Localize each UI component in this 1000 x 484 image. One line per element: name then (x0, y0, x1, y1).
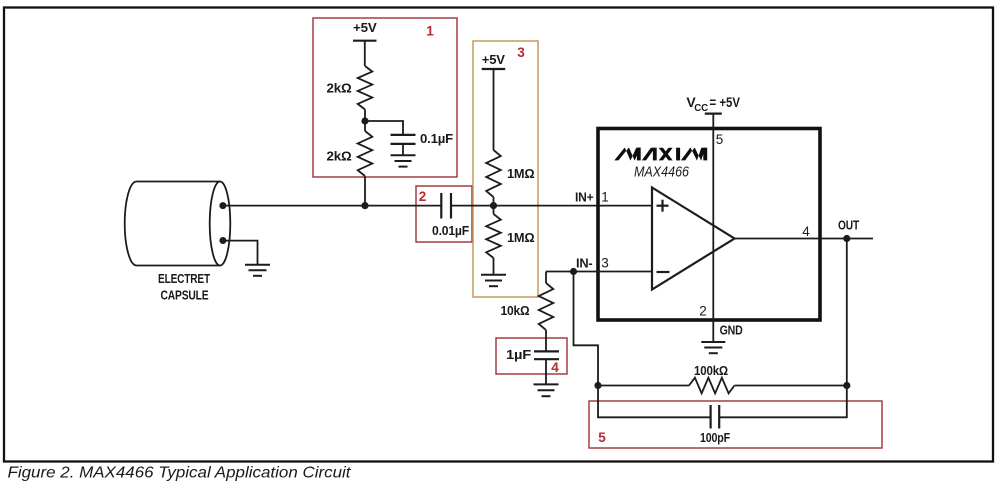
op-amp U1 triangle (652, 188, 735, 290)
node bias divider junction (361, 117, 368, 124)
svg-text:2: 2 (699, 304, 707, 319)
annotation box 1 (313, 18, 457, 177)
svg-text:5: 5 (598, 430, 606, 445)
annotation box 5 (589, 401, 882, 448)
annotation box 4 (496, 338, 567, 374)
node OUT junction (843, 235, 850, 242)
svg-text:4: 4 (802, 224, 810, 239)
svg-text:1MΩ: 1MΩ (507, 230, 535, 245)
svg-text:2kΩ: 2kΩ (327, 81, 352, 96)
wire +5V bar to R1 (364, 41, 366, 66)
wire 0.1uF to ground (402, 144, 404, 155)
svg-text:ELECTRET: ELECTRET (158, 271, 210, 286)
svg-text:3: 3 (601, 256, 609, 271)
IC U1 MAX4466 package (598, 129, 820, 321)
node feedback right junction (843, 382, 850, 389)
svg-text:Figure 2. MAX4466 Typical Appl: Figure 2. MAX4466 Typical Application Ci… (8, 465, 352, 482)
ground at 1uF (534, 384, 559, 396)
svg-text:4: 4 (551, 360, 559, 375)
svg-text:10kΩ: 10kΩ (501, 303, 530, 318)
wire Vcc pin 5 through IC to GND pin 2 (712, 114, 714, 342)
ground at 0.1uF (391, 155, 416, 166)
ground at IC GND pin (701, 342, 725, 353)
wire +5V bar to 1M upper (493, 69, 495, 150)
annotation box 3 (473, 41, 538, 297)
wire 100pF branch left (598, 386, 711, 418)
svg-text:OUT: OUT (838, 218, 859, 233)
wire 1M lower to ground (493, 258, 495, 275)
wire bias node to 0.1uF cap (365, 121, 403, 135)
wire 100pF branch right (719, 386, 847, 418)
capacitor 100pF (711, 405, 720, 429)
wire capsule output to coupling cap (223, 205, 441, 207)
svg-text:0.01µF: 0.01µF (432, 223, 469, 238)
svg-text:2: 2 (419, 189, 427, 204)
Vcc supply bar (705, 112, 722, 114)
svg-text:1: 1 (601, 190, 609, 205)
wire IN- input (546, 271, 652, 273)
node capsule output terminal (219, 202, 226, 209)
node feedback left junction (594, 382, 601, 389)
svg-text:IN-: IN- (576, 256, 593, 271)
resistor R 10k (539, 283, 554, 330)
+5V supply bar (input divider) (482, 68, 506, 70)
node bias to main wire junction (361, 202, 368, 209)
wire 1M upper to node (493, 197, 495, 214)
ground at input divider (481, 275, 506, 286)
svg-text:IN+: IN+ (575, 190, 594, 205)
+5V supply bar (bias divider) (353, 40, 377, 42)
svg-text:1MΩ: 1MΩ (507, 166, 535, 181)
resistor R 2k upper (358, 66, 373, 109)
op-amp minus input symbol (657, 271, 670, 273)
wire IN- node to feedback node (574, 272, 599, 386)
wire OUT node down to feedback (846, 239, 848, 386)
op-amp plus input symbol (657, 200, 669, 212)
svg-text:MAX4466: MAX4466 (634, 165, 690, 181)
resistor R 1M lower (486, 214, 501, 258)
svg-text:3: 3 (517, 45, 525, 60)
wire feedback left to 100k (598, 385, 689, 387)
svg-text:1µF: 1µF (506, 347, 531, 362)
node IN- junction (570, 268, 577, 275)
MAXIM logo (614, 148, 707, 161)
svg-text:+5V: +5V (353, 20, 377, 35)
svg-text:+5V: +5V (482, 52, 506, 67)
svg-text:= +5V: = +5V (710, 95, 741, 110)
node capsule ground terminal (219, 237, 226, 244)
wire 100k to OUT node (735, 385, 847, 387)
svg-text:0.1µF: 0.1µF (420, 131, 453, 146)
wire R 2k upper to node (364, 110, 366, 132)
svg-text:CAPSULE: CAPSULE (161, 288, 209, 303)
electret capsule body (125, 182, 231, 266)
node input divider junction (490, 202, 497, 209)
wire 0.01uF to IN+ (451, 205, 652, 207)
wire IN- to 10k resistor (545, 272, 547, 284)
svg-text:5: 5 (716, 132, 724, 147)
ground at capsule (245, 265, 270, 276)
wire capsule ground lead (223, 241, 258, 265)
wire 1uF to ground (545, 359, 547, 384)
resistor R 2k lower (358, 131, 373, 176)
annotation box 2 (416, 186, 472, 242)
capacitor 1uF (534, 351, 559, 359)
svg-text:1: 1 (426, 24, 434, 39)
capacitor 0.01uF coupling (441, 193, 451, 219)
resistor R 100k feedback (689, 378, 735, 394)
svg-text:2kΩ: 2kΩ (327, 149, 352, 164)
wire op-amp output to OUT (735, 238, 874, 240)
capacitor 0.1uF (391, 135, 416, 144)
svg-text:CC: CC (694, 103, 708, 114)
svg-text:100kΩ: 100kΩ (694, 363, 728, 378)
svg-text:GND: GND (720, 322, 743, 337)
svg-text:100pF: 100pF (700, 430, 730, 445)
resistor R 1M upper (486, 150, 501, 197)
wire R 2k lower to main node (364, 176, 366, 205)
wire 10k to 1uF cap (545, 330, 547, 351)
